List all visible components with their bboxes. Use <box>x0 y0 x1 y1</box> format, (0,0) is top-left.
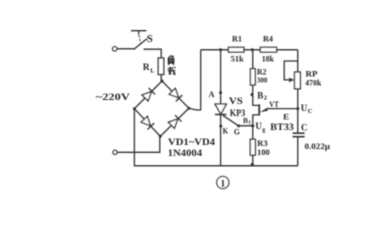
svg-text:G: G <box>234 126 240 136</box>
svg-text:C: C <box>308 108 313 115</box>
svg-text:A: A <box>209 89 216 99</box>
svg-text:470k: 470k <box>305 78 321 88</box>
svg-text:R3: R3 <box>257 139 268 148</box>
svg-text:C: C <box>301 123 308 133</box>
svg-text:VT: VT <box>269 99 279 109</box>
svg-text:R: R <box>143 63 150 73</box>
svg-text:51k: 51k <box>231 55 245 64</box>
svg-text:VD1~VD4: VD1~VD4 <box>168 137 216 147</box>
svg-text:S: S <box>147 34 153 45</box>
svg-text:~220V: ~220V <box>96 93 130 103</box>
svg-text:1: 1 <box>248 120 251 126</box>
svg-text:18k: 18k <box>262 55 275 64</box>
svg-text:U: U <box>301 103 308 113</box>
svg-text:100: 100 <box>257 148 270 157</box>
svg-text:300: 300 <box>257 76 268 84</box>
svg-text:R2: R2 <box>257 68 267 77</box>
svg-text:B: B <box>257 90 263 100</box>
svg-text:0.022μ: 0.022μ <box>305 142 331 151</box>
svg-text:R4: R4 <box>263 35 273 44</box>
svg-text:2: 2 <box>264 95 267 102</box>
svg-text:1N4004: 1N4004 <box>168 148 203 158</box>
svg-text:R1: R1 <box>232 35 242 44</box>
svg-text:g: g <box>262 127 265 133</box>
svg-text:VS: VS <box>229 96 243 106</box>
svg-text:E: E <box>283 112 289 122</box>
svg-text:1: 1 <box>221 180 226 190</box>
svg-text:L: L <box>150 67 155 74</box>
svg-text:K: K <box>223 126 229 136</box>
svg-text:BT33: BT33 <box>270 122 294 132</box>
